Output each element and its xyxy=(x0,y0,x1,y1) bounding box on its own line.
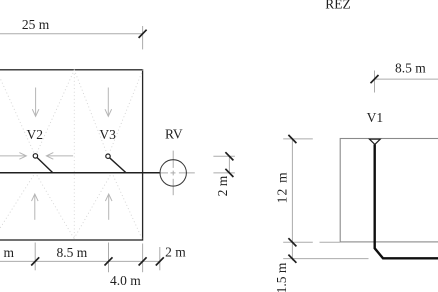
bottom dimension: extension at 8.5/4.0 boundary xyxy=(108,243,110,273)
reservoir outline (extends off-canvas right) xyxy=(340,139,438,242)
valve V3 handle xyxy=(110,158,126,173)
supply pipe from reservoir (thick) xyxy=(375,144,438,258)
dimension 1.5 m: middle extension xyxy=(283,241,313,243)
svg-text:V1: V1 xyxy=(367,110,384,125)
bottom dimension: tick 2 xyxy=(105,257,113,265)
vertical dimension 2 m near RV: extension lines xyxy=(213,155,235,157)
svg-text:2 m: 2 m xyxy=(215,175,230,196)
valve V2 circle xyxy=(33,154,37,158)
valve V2 handle xyxy=(37,158,53,173)
dotted section line pipe below V3 to bottom-right corner xyxy=(112,173,143,240)
dotted section line pipe below V2 to bottom-center xyxy=(35,173,74,239)
dimension 1.5 m: line xyxy=(291,242,293,261)
flow arrow up (right bottom section) xyxy=(105,194,112,220)
svg-text:12.5 m: 12.5 m xyxy=(0,245,14,260)
dimension 12 m: tick top xyxy=(288,135,296,143)
svg-text:V2: V2 xyxy=(27,127,44,142)
valve V1 triangle symbol xyxy=(370,139,381,144)
RV crosshair centerline horizontal (dash-dot) xyxy=(154,172,195,174)
bottom dimension: tick 3 xyxy=(139,257,147,265)
dimension 25 m: tick xyxy=(139,30,147,38)
dimension 25 m: line xyxy=(0,33,143,35)
bottom dimension: tick 4 xyxy=(156,257,164,265)
dotted section line top-center to valve V2 xyxy=(35,70,74,156)
svg-text:12 m: 12 m xyxy=(275,172,290,203)
main pipe xyxy=(0,172,160,174)
dimension 8.5 m (elevation): line xyxy=(375,78,438,80)
dimension 12 m: line xyxy=(291,139,293,242)
svg-text:8.5 m: 8.5 m xyxy=(395,61,426,76)
svg-text:4.0 m: 4.0 m xyxy=(110,273,141,288)
svg-text:25 m: 25 m xyxy=(22,17,50,32)
dotted section line pipe below V2 to bottom-left xyxy=(0,173,35,240)
dotted section line top-right corner to valve V3 xyxy=(108,70,143,156)
RV crosshair centerline vertical (dash-dot) xyxy=(172,151,174,196)
flow arrow right toward V2 xyxy=(0,153,26,160)
flow arrow down (right section) xyxy=(105,88,112,117)
dimension 1.5 m: tick middle xyxy=(288,238,296,246)
dotted section line pipe below V3 to bottom-center xyxy=(74,173,112,239)
bottom dimension: extension at field corner xyxy=(142,244,144,273)
bottom dimension: extension at 12.5/8.5 boundary xyxy=(34,243,36,271)
dimension 1.5 m: bottom extension xyxy=(283,258,368,260)
flow arrow left toward V2 xyxy=(46,153,73,160)
svg-text:1.5 m: 1.5 m xyxy=(274,262,289,292)
dotted section line top-center to valve V3 xyxy=(74,70,108,156)
dimension 8.5 m (elevation): tick xyxy=(371,75,379,83)
svg-text:V3: V3 xyxy=(99,127,116,142)
svg-text:REZ: REZ xyxy=(325,0,351,12)
dimension 1.5 m: extension gap segment xyxy=(320,241,341,243)
field outline (plan view rectangle, extends off-canvas left) xyxy=(0,70,143,240)
svg-text:8.5 m: 8.5 m xyxy=(57,245,88,260)
flow arrow up (left bottom section) xyxy=(32,194,39,220)
dimension 12 m: top extension xyxy=(283,138,313,140)
svg-text:2 m: 2 m xyxy=(165,244,186,259)
flow arrow down (left section) xyxy=(32,88,39,117)
svg-text:RV: RV xyxy=(165,127,183,142)
bottom dimension chain: line xyxy=(0,260,160,262)
vertical dimension 2 m: tick top xyxy=(225,152,233,160)
dimension 25 m: extension line xyxy=(142,26,144,49)
vertical dimension 2 m: tick bottom xyxy=(225,169,233,177)
bottom dimension: extension at RV axis xyxy=(159,247,161,270)
dotted section line top-left to valve V2 xyxy=(0,70,35,156)
vertical dimension 2 m: line xyxy=(228,156,230,173)
dotted section boundary vertical at x=74.3 xyxy=(73,71,75,240)
bottom dimension: tick 1 xyxy=(31,257,39,265)
valve V3 circle xyxy=(106,154,110,158)
pump RV circle xyxy=(160,160,186,186)
dimension 8.5 m (elevation): extension line xyxy=(374,71,376,93)
dimension 1.5 m: tick bottom xyxy=(288,255,296,263)
